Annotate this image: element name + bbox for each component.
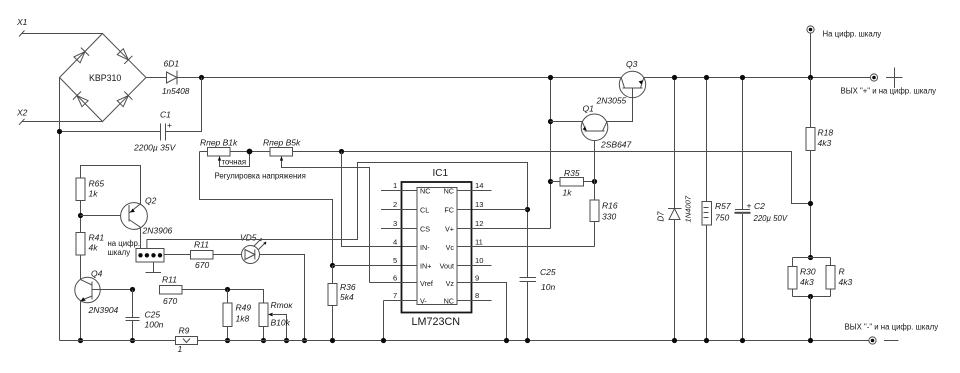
wire feedback line pot2 to R18 bottom (293, 152, 811, 204)
svg-text:4k3: 4k3 (818, 138, 832, 148)
wire R36 bottom to bus (332, 306, 334, 341)
svg-text:10n: 10n (541, 282, 555, 292)
wire connector to R11 (164, 254, 191, 256)
wire pot1 to pot2 (230, 151, 270, 153)
node junction C25 on bus (525, 338, 530, 343)
wire pot1 left down to IN+ node (200, 152, 333, 266)
wire Q1 collector to Q3 base (607, 98, 633, 122)
wire pin13 to node (457, 209, 528, 211)
svg-text:4k: 4k (89, 243, 99, 253)
node junction C25 on bus (130, 338, 135, 343)
svg-text:1N4007: 1N4007 (684, 195, 693, 222)
wire R18 leads (810, 78, 812, 258)
svg-text:IN-: IN- (420, 243, 430, 252)
svg-text:8: 8 (475, 291, 479, 300)
capacitor C25 10n (520, 267, 556, 341)
wire R11 to R49/Rtok tops (182, 290, 264, 304)
svg-text:+: + (747, 201, 752, 211)
svg-text:R41: R41 (89, 233, 105, 243)
transistor Q4 2N3904 (75, 269, 119, 316)
svg-text:5k4: 5k4 (340, 292, 354, 302)
svg-text:KBP310: KBP310 (89, 73, 121, 83)
svg-text:NC: NC (444, 297, 454, 306)
svg-text:IN+: IN+ (420, 262, 431, 271)
svg-text:Q3: Q3 (626, 59, 638, 69)
svg-text:2N3906: 2N3906 (142, 226, 173, 236)
diode 6D1 1n5408 (162, 59, 190, 97)
svg-text:LM723CN: LM723CN (412, 316, 461, 328)
connector 4-pin to digital scale (136, 249, 164, 263)
svg-text:ВЫХ "+" и на цифр. шкалу: ВЫХ "+" и на цифр. шкалу (841, 87, 937, 96)
LED VD5 (240, 233, 266, 264)
resistor R35 1k (551, 168, 595, 198)
label na cifr. shkalu (left) (108, 239, 141, 257)
node junction FC pin13 (525, 207, 530, 212)
pin 14 NC (444, 181, 492, 196)
ground below connector (146, 262, 162, 273)
node junction D7 bus (672, 338, 677, 343)
svg-text:R: R (839, 267, 845, 277)
svg-text:100n: 100n (145, 320, 164, 330)
svg-text:D7: D7 (657, 211, 666, 222)
svg-text:1k: 1k (89, 189, 99, 199)
svg-text:B10k: B10k (271, 318, 291, 328)
wire IN- vertical (342, 152, 418, 247)
wire main positive rail (6D1 to Q3 collector) (177, 77, 621, 79)
node junction C1 minus on left bus (57, 129, 62, 134)
capacitor C25 100n (126, 290, 164, 341)
resistor R57 750 (702, 78, 731, 341)
pin 1 NC (381, 181, 430, 196)
wire terminal to rail (810, 33, 812, 77)
pin 13 FC (444, 200, 483, 215)
svg-text:R35: R35 (564, 168, 580, 178)
node junction C2 rail (740, 75, 745, 80)
svg-text:VD5: VD5 (240, 233, 257, 243)
svg-text:+: + (167, 120, 172, 130)
node junction rail/x551 (548, 75, 553, 80)
node junction R36 on bus (330, 338, 335, 343)
wire VD5 cathode to bottom bus (260, 255, 305, 341)
node X2 (16, 108, 28, 125)
terminal VYH - output (845, 323, 939, 345)
svg-text:V-: V- (420, 297, 427, 306)
wire X2 to bridge bottom (22, 121, 103, 123)
wire R49 bottom to bus (227, 327, 229, 341)
potentiometer Rtok B10k (259, 300, 293, 341)
node junction D7 rail (672, 75, 677, 80)
svg-text:Rток: Rток (271, 300, 294, 310)
svg-text:ВЫХ "-" и на цифр. шкалу: ВЫХ "-" и на цифр. шкалу (845, 323, 939, 332)
pin 9 Vz (446, 274, 507, 341)
svg-text:220µ 50V: 220µ 50V (753, 214, 788, 223)
node junction on bus (808, 338, 813, 343)
svg-text:R11: R11 (194, 240, 209, 250)
svg-text:R65: R65 (89, 179, 105, 189)
svg-text:1: 1 (393, 181, 397, 190)
wire line C connector pin2 to FC/C25 wrap (147, 163, 528, 278)
svg-text:NC: NC (420, 187, 430, 196)
svg-text:Vref: Vref (420, 279, 433, 288)
svg-text:5: 5 (393, 256, 397, 265)
wire R49 top lead (227, 290, 229, 304)
pin 2 CL (381, 200, 429, 215)
node junction R30/R bottom (808, 294, 813, 299)
svg-text:670: 670 (163, 296, 177, 306)
wire pot1 left lead (200, 151, 208, 153)
svg-text:2SB647: 2SB647 (600, 140, 632, 150)
svg-text:1: 1 (178, 344, 183, 354)
node junction VD5 wire on bus (302, 338, 307, 343)
svg-text:CS: CS (420, 225, 430, 234)
node junction IN+ / R36 (330, 263, 335, 268)
wire bottom bus right segment (198, 340, 870, 342)
svg-text:1n5408: 1n5408 (162, 87, 190, 96)
pin 7 V- (384, 291, 428, 341)
pin 12 V+ (445, 219, 551, 234)
wire R41 bottom to Q4 collector (80, 255, 82, 280)
node junction R18 rail (808, 75, 813, 80)
diode D7 1N4007 (657, 78, 693, 341)
resistor R18 4k3 (806, 128, 833, 151)
potentiometer Rper B1k (200, 138, 250, 167)
svg-text:4k3: 4k3 (839, 277, 853, 287)
resistor R41 4k (76, 233, 104, 256)
node junction Q4 emitter on bus (78, 338, 83, 343)
terminal VYH + output (841, 68, 937, 96)
svg-text:точная: точная (222, 158, 247, 167)
svg-text:C25: C25 (145, 310, 161, 320)
node junction 6D1/C1 (199, 75, 204, 80)
pin 10 Vout (440, 256, 492, 271)
wire Q1 emitter lead (551, 121, 583, 123)
svg-text:2N3055: 2N3055 (596, 96, 627, 106)
wire Q4 emitter to bottom bus (80, 301, 82, 341)
svg-text:10: 10 (475, 256, 483, 265)
transistor Q3 2N3055 (596, 59, 646, 106)
pin 11 Vc (446, 238, 595, 253)
resistor R65 1k (76, 178, 104, 201)
resistor R11 670 (second) (160, 275, 183, 307)
wire bridge right vertex to diode 6D1 (146, 77, 167, 79)
svg-text:2200µ 35V: 2200µ 35V (133, 143, 177, 153)
svg-text:330: 330 (602, 212, 616, 222)
svg-text:C1: C1 (160, 110, 171, 120)
capacitor C2 220u 50V (735, 78, 788, 341)
node junction R49 on bus (225, 338, 230, 343)
resistor R16 330 (590, 182, 618, 247)
node X1 (16, 17, 28, 37)
node junction R57 rail (704, 75, 709, 80)
svg-text:Rпер B1k: Rпер B1k (200, 138, 238, 148)
svg-text:14: 14 (475, 181, 483, 190)
node junction V- on bus (381, 338, 386, 343)
svg-text:750: 750 (715, 213, 729, 223)
svg-text:1k: 1k (563, 188, 573, 198)
resistor R 4k3 (793, 258, 853, 297)
wire R65 top to Q2 emitter (81, 166, 141, 205)
svg-text:Q1: Q1 (583, 104, 595, 114)
wire Q4 base to node (92, 289, 133, 291)
resistor R36 5k4 (328, 266, 356, 306)
node junction feedback tap (808, 201, 813, 206)
pin 3 CS (381, 219, 430, 234)
svg-text:На цифр. шкалу: На цифр. шкалу (823, 30, 882, 39)
node junction R65/R41/Q2 base (78, 213, 83, 218)
node junction Rtok on bus (261, 338, 266, 343)
svg-text:R18: R18 (818, 128, 834, 138)
node junction Q1 emitter (548, 119, 553, 124)
svg-text:R49: R49 (236, 303, 252, 313)
potentiometer Rper B5k (263, 138, 370, 283)
svg-text:R57: R57 (715, 201, 731, 211)
node junction R30/R top (808, 255, 813, 260)
node junction pot1 wiper (247, 149, 253, 155)
node junction Rtok wiper on bus (284, 338, 289, 343)
pin 8 NC (444, 291, 492, 306)
svg-text:670: 670 (195, 260, 209, 270)
pin 4 IN- (393, 238, 430, 253)
node junction R57 bus (704, 338, 709, 343)
wire R65 bottom to R41 top (80, 201, 82, 233)
svg-text:6D1: 6D1 (164, 59, 180, 69)
node junction Vz on bus (504, 338, 509, 343)
wire rail right of Q3 to output (644, 77, 871, 79)
node junction R35 left (548, 179, 553, 184)
resistor R30 4k3 (788, 258, 831, 297)
svg-text:R9: R9 (179, 326, 190, 336)
svg-text:Rпер B5k: Rпер B5k (263, 138, 301, 148)
transistor Q1 2SB647 (581, 104, 631, 150)
wire X1 to bridge top (22, 33, 103, 35)
svg-text:R36: R36 (340, 282, 356, 292)
wire bottom bus left segment (60, 340, 176, 342)
svg-text:2: 2 (393, 200, 397, 209)
svg-text:Q4: Q4 (91, 269, 103, 279)
pin 6 Vref (370, 274, 433, 289)
svg-text:9: 9 (475, 274, 479, 283)
svg-text:V+: V+ (445, 225, 454, 234)
node junction C2 bus (740, 338, 745, 343)
pin 5 IN+ (393, 256, 431, 271)
svg-text:Vz: Vz (446, 279, 455, 288)
svg-text:Q2: Q2 (145, 196, 157, 206)
op-amp regulator IC1 LM723CN outer box (402, 168, 472, 328)
wire bridge left vertex down left vertical bus (59, 78, 61, 341)
svg-text:Vc: Vc (446, 243, 455, 252)
svg-text:Регулировка напряжения: Регулировка напряжения (215, 172, 306, 181)
svg-text:R30: R30 (800, 267, 816, 277)
wire IN+ to pin 5 (333, 265, 418, 267)
svg-text:на цифр.: на цифр. (108, 239, 141, 248)
svg-text:4: 4 (393, 238, 397, 247)
svg-text:11: 11 (475, 238, 483, 247)
svg-text:R16: R16 (602, 201, 618, 211)
wire Q2 base (81, 215, 130, 217)
bridge rectifier KBP310 (60, 34, 147, 122)
wire Rtok bottom to bus (263, 327, 265, 341)
wire to bus (810, 297, 812, 341)
svg-text:3: 3 (393, 219, 397, 228)
svg-text:C2: C2 (754, 201, 765, 211)
svg-text:1k8: 1k8 (236, 314, 250, 324)
node junction R49 top (225, 287, 230, 292)
svg-text:12: 12 (475, 219, 483, 228)
svg-text:шкалу: шкалу (108, 248, 131, 257)
svg-text:7: 7 (393, 291, 397, 300)
resistor R9 1 (in series with bus) (176, 326, 198, 355)
svg-text:NC: NC (444, 187, 454, 196)
svg-text:C25: C25 (540, 267, 556, 277)
wire Q1 base down to R35 node (594, 141, 596, 182)
svg-text:IC1: IC1 (433, 168, 449, 179)
wire Q2 collector down to connector pin1 (140, 227, 142, 248)
wire V+ rail branch vertical x551 (550, 78, 552, 229)
svg-text:FC: FC (444, 206, 454, 215)
svg-text:CL: CL (420, 206, 429, 215)
transistor Q2 2N3906 (121, 196, 173, 236)
svg-text:X1: X1 (16, 17, 28, 27)
svg-text:R11: R11 (162, 275, 177, 285)
svg-text:X2: X2 (16, 108, 28, 118)
svg-text:6: 6 (393, 274, 397, 283)
node junction Q4 base / C25 / R11 (130, 287, 135, 292)
svg-text:4k3: 4k3 (800, 277, 814, 287)
svg-text:Vout: Vout (440, 262, 454, 271)
IC1 inner box (417, 188, 457, 305)
node junction IN- tap (339, 149, 344, 154)
resistor R49 1k8 (223, 303, 251, 327)
capacitor C1 2200u 35V (60, 78, 202, 153)
svg-text:2N3904: 2N3904 (88, 305, 119, 315)
terminal Na cifr. shkalu (top) (807, 26, 881, 39)
wire R11 to VD5 (213, 254, 242, 256)
resistor R11 670 (LED series) (191, 240, 214, 271)
svg-text:13: 13 (475, 200, 483, 209)
node junction R35 right / Q1 base / R16 (592, 179, 597, 184)
